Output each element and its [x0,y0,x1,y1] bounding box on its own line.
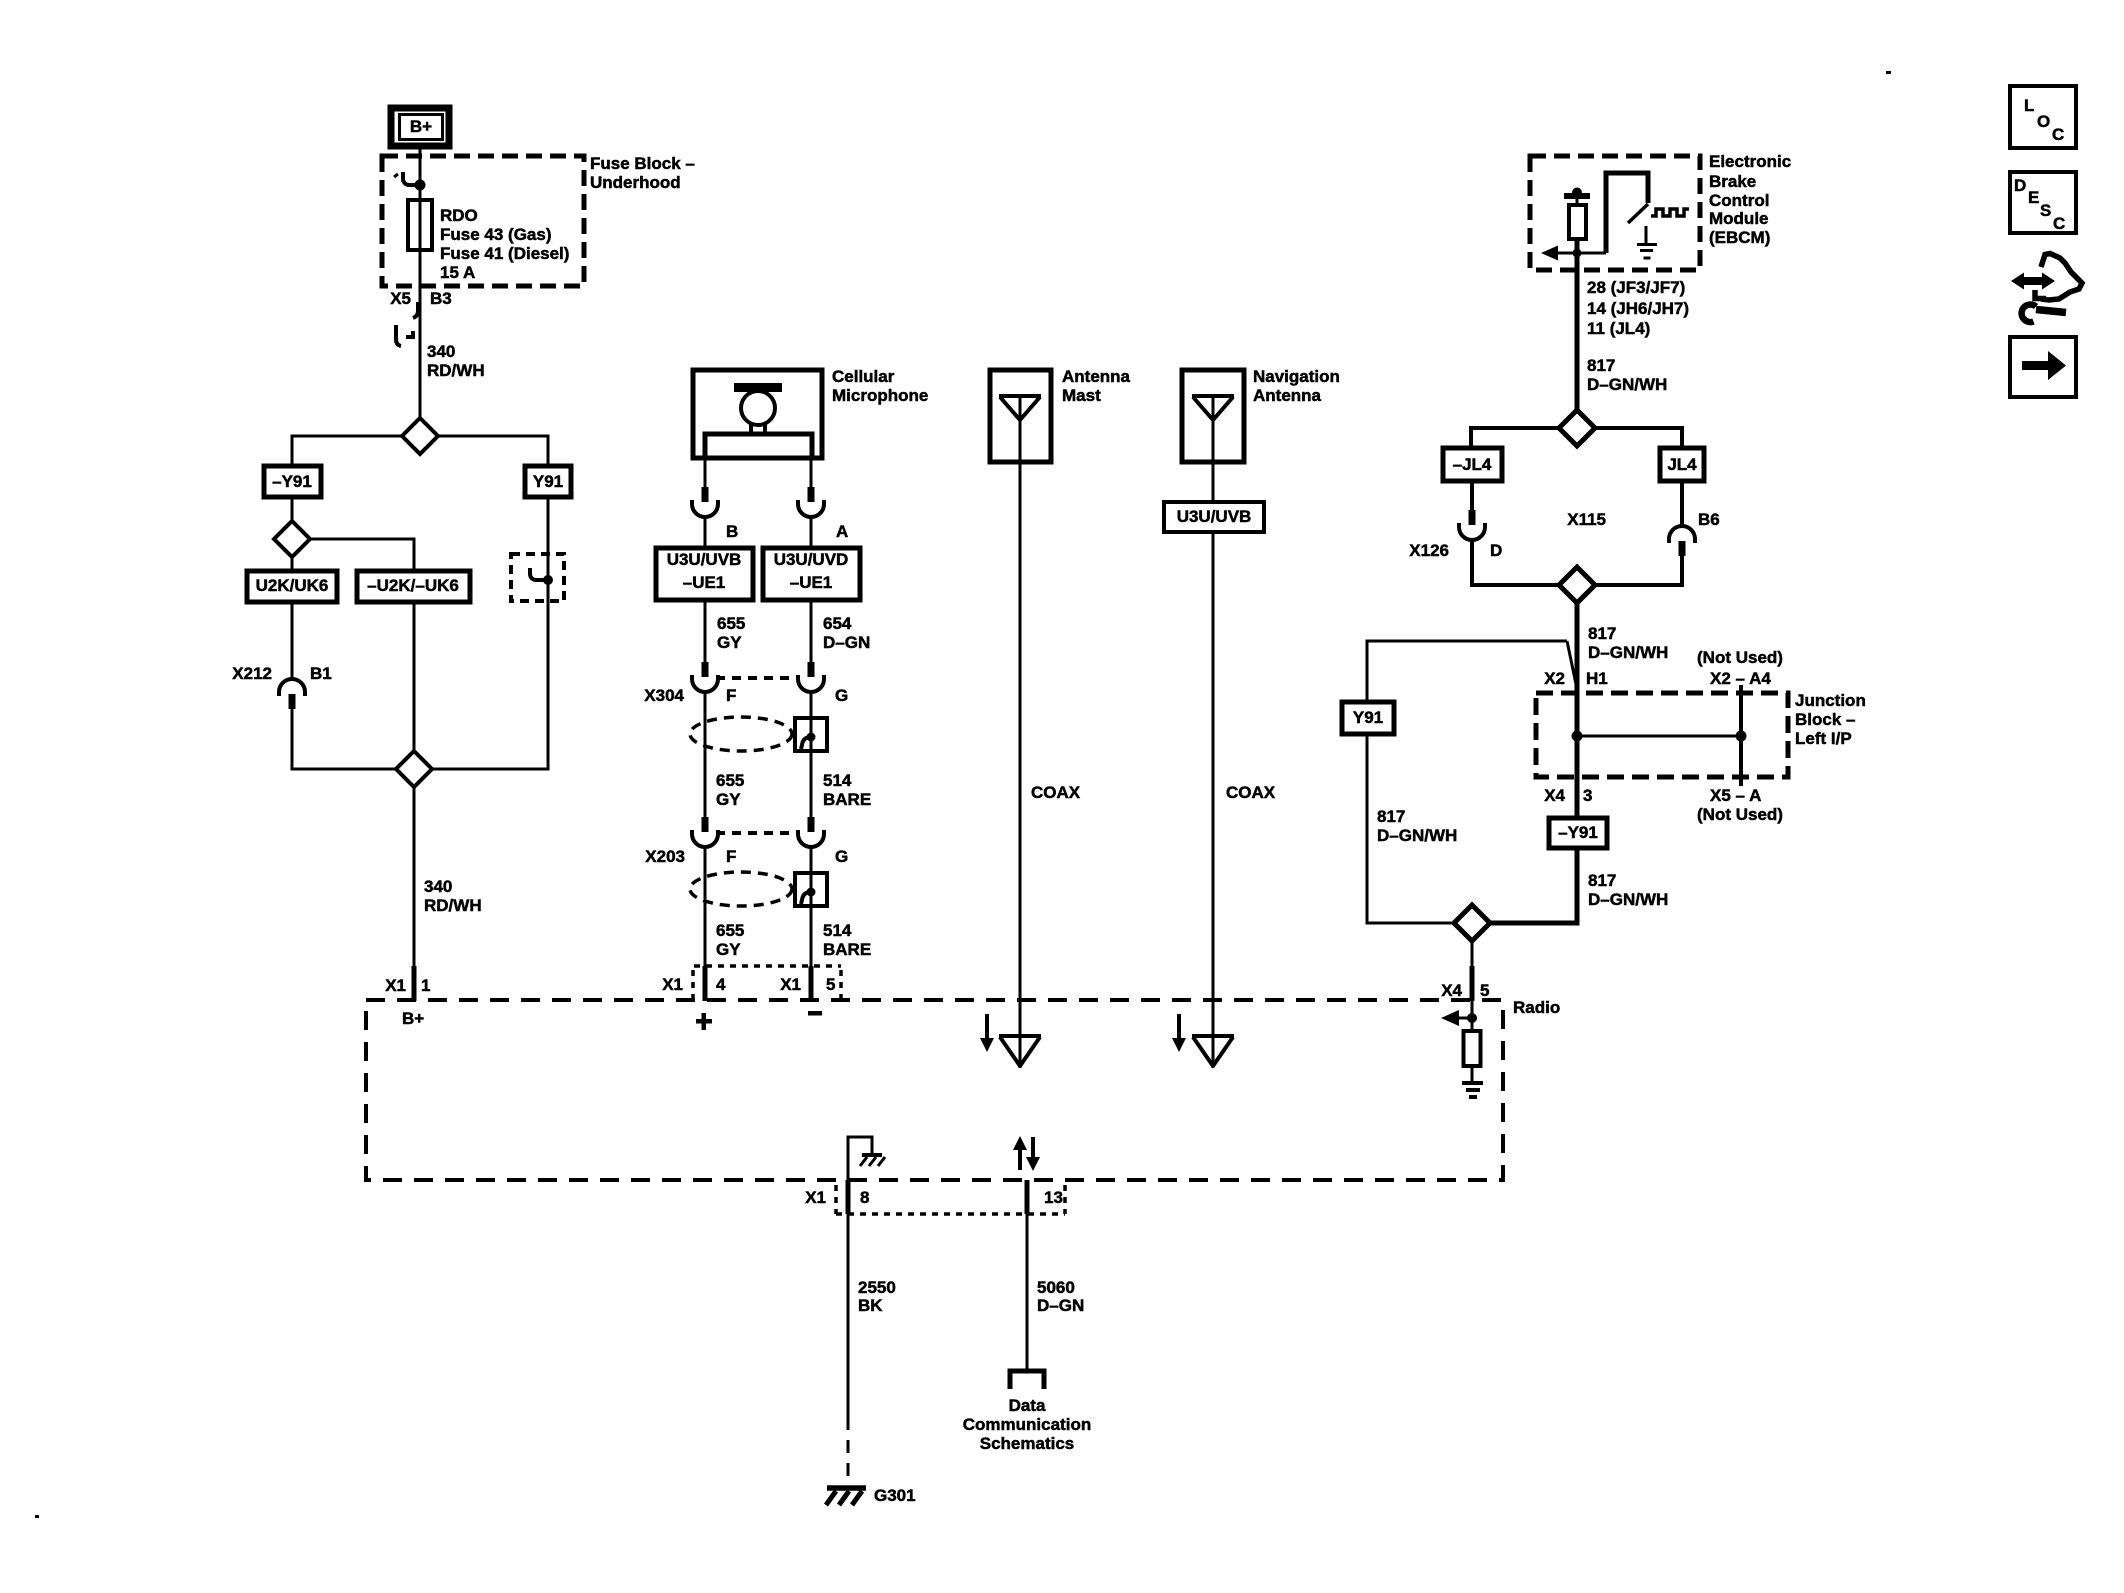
svg-text:(Not Used): (Not Used) [1697,648,1783,667]
EBCM dashed box [1530,156,1700,270]
cellular microphone box [693,370,822,458]
wire X212 down and right to S3 [292,709,398,769]
ANTENNA SECTION [980,367,1340,1068]
option box -Y91 right [1549,818,1607,848]
svg-text:817: 817 [1377,807,1405,826]
radio pin X1 1 [385,966,430,1001]
svg-text:JL4: JL4 [1667,455,1697,474]
svg-text:RD/WH: RD/WH [427,361,485,380]
splice diamond S2 [274,521,310,557]
svg-text:817: 817 [1588,871,1616,890]
wire S2 down [291,555,294,571]
svg-text:Module: Module [1709,209,1769,228]
splice diamond R3 [1454,905,1490,941]
EBCM switch to ground [1606,173,1657,258]
svg-text:11 (JL4): 11 (JL4) [1587,319,1650,338]
shield ellipse 1 [690,717,792,751]
connector X203 F [645,817,736,866]
radio pin X1 5 [780,966,835,1001]
svg-text:RDO: RDO [440,206,478,225]
svg-text:A: A [836,522,848,541]
svg-text:D–GN/WH: D–GN/WH [1588,890,1668,909]
svg-text:X5 – A: X5 – A [1710,786,1761,805]
drain box 1 [795,718,827,751]
svg-text:3: 3 [1583,786,1592,805]
splice diamond R2 [1559,567,1595,603]
svg-text:Brake: Brake [1709,172,1756,191]
svg-text:13: 13 [1044,1188,1063,1207]
svg-text:Left I/P: Left I/P [1795,729,1852,748]
svg-text:U2K/UK6: U2K/UK6 [256,576,329,595]
radio internal ground branch [848,1137,885,1180]
svg-text:Underhood: Underhood [590,173,681,192]
mic wires down [704,458,707,489]
svg-text:X4: X4 [1441,981,1462,1000]
svg-text:B3: B3 [430,289,452,308]
svg-text:Y91: Y91 [533,472,563,491]
antenna mast symbol [999,396,1041,462]
wire fuse to diamond [419,250,422,418]
svg-text:655: 655 [716,921,744,940]
svg-text:14 (JH6/JH7): 14 (JH6/JH7) [1587,299,1689,318]
pin X2 H1 [1544,669,1608,688]
svg-text:655: 655 [717,614,745,633]
option box Y91 right [1342,702,1394,734]
wire to JL4 [1593,428,1682,448]
svg-text:B1: B1 [310,664,332,683]
wire 654 D-GN [810,600,813,664]
wire EBCM down [1575,253,1580,412]
svg-text:U3U/UVD: U3U/UVD [774,550,849,569]
svg-text:U3U/UVB: U3U/UVB [1177,507,1252,526]
wire to -JL4 [1471,428,1561,448]
svg-text:15 A: 15 A [440,263,475,282]
connector X304 F [644,662,736,705]
option box -Y91 [264,466,321,497]
wire 655 GY upper [704,600,707,664]
svg-text:H1: H1 [1586,669,1608,688]
svg-text:Schematics: Schematics [980,1434,1075,1453]
dashed link X203 [716,831,798,835]
svg-text:Data: Data [1009,1396,1046,1415]
Y91 branch thin loop [1367,641,1577,923]
dotted connector strip X1 4/5 [693,966,841,999]
radio pin X1 4 [662,966,726,1001]
svg-text:G: G [835,847,848,866]
arrow icon [2010,337,2076,397]
svg-text:Fuse 41 (Diesel): Fuse 41 (Diesel) [440,244,569,263]
svg-text:28 (JF3/JF7): 28 (JF3/JF7) [1587,278,1685,297]
svg-text:X2: X2 [1544,669,1565,688]
radio antenna terminal mast [999,1000,1041,1068]
option box U3U/UVB nav [1164,502,1264,532]
svg-text:Antenna: Antenna [1062,367,1131,386]
svg-text:D–GN: D–GN [823,633,870,652]
navigation antenna box [1182,370,1244,462]
EBCM driver coil [1564,188,1590,254]
scan speck top right [1886,71,1891,74]
svg-text:BARE: BARE [823,790,871,809]
svg-text:RD/WH: RD/WH [424,896,482,915]
svg-text:Fuse 43 (Gas): Fuse 43 (Gas) [440,225,552,244]
plus label [696,1013,712,1030]
svg-text:D–GN: D–GN [1037,1296,1084,1315]
svg-text:–UE1: –UE1 [683,573,726,592]
wire 2550 BK [847,1214,850,1417]
svg-text:COAX: COAX [1031,783,1081,802]
scan speck bottom left [35,1515,39,1518]
loc icon [2010,86,2076,148]
wire -U2K down to S3 [413,602,416,751]
rf arrow nav [1172,1014,1186,1052]
pin 13 [1027,1180,1063,1214]
svg-text:Microphone: Microphone [832,386,928,405]
svg-text:D: D [1490,541,1502,560]
option box -JL4 [1443,448,1502,481]
connector X212 B1 [232,664,331,709]
bus hook and junction dot [394,172,426,191]
svg-text:Y91: Y91 [1353,708,1383,727]
splice diamond S3 [396,751,432,787]
svg-text:Antenna: Antenna [1253,386,1322,405]
svg-text:COAX: COAX [1226,783,1276,802]
dashed link X304 [716,676,798,680]
svg-text:GY: GY [716,940,741,959]
svg-text:GY: GY [716,790,741,809]
radio antenna terminal nav [1192,1000,1234,1068]
svg-text:2550: 2550 [858,1278,896,1297]
svg-text:X115: X115 [1567,510,1606,529]
svg-text:B+: B+ [410,117,432,136]
svg-text:–U2K/–UK6: –U2K/–UK6 [367,576,459,595]
svg-text:X304: X304 [644,686,684,705]
svg-text:U3U/UVB: U3U/UVB [667,550,742,569]
wire Y91 down through inline conn to S3 [430,497,548,769]
svg-text:8: 8 [860,1188,869,1207]
svg-text:–Y91: –Y91 [272,472,312,491]
svg-text:Electronic: Electronic [1709,152,1791,171]
dashed ground wire [847,1417,850,1484]
EBCM pwm signal [1651,209,1689,216]
svg-text:O: O [2037,112,2050,131]
wire X4-3 to -Y91 [1575,777,1580,818]
MIC SECTION [644,367,928,1030]
coax wire mast [1019,462,1022,1000]
svg-text:G: G [835,686,848,705]
svg-text:B6: B6 [1698,510,1720,529]
connector X304 G [798,662,848,705]
coax wire nav [1212,532,1215,1000]
power feed B+ box [391,108,449,146]
svg-text:(Not Used): (Not Used) [1697,805,1783,824]
desc icon [2010,172,2076,233]
wires X203 to radio [704,847,707,968]
drain box 2 [795,873,827,906]
svg-text:S: S [2040,201,2051,220]
wire X115 to diamond R2 [1593,556,1682,585]
svg-text:X1: X1 [780,975,801,994]
radio dashed box [366,1000,1503,1180]
junction block internal bus [1572,685,1747,786]
svg-text:X2 – A4: X2 – A4 [1710,669,1771,688]
svg-text:5060: 5060 [1037,1278,1075,1297]
svg-text:F: F [726,847,736,866]
svg-text:–Y91: –Y91 [1558,823,1598,842]
svg-text:BARE: BARE [823,940,871,959]
wire S2 right branch to -U2K box [308,539,414,571]
wire nav to U3U/UVB [1212,462,1215,502]
svg-text:Communication: Communication [963,1415,1091,1434]
svg-text:B+: B+ [402,1009,424,1028]
svg-text:D–GN/WH: D–GN/WH [1587,375,1667,394]
option box Y91 [525,466,571,497]
off page bracket [1010,1371,1044,1389]
svg-text:G301: G301 [874,1486,916,1505]
radio internal data arrows [1013,1136,1040,1171]
svg-text:B: B [726,522,738,541]
svg-text:X4: X4 [1544,786,1565,805]
svg-text:817: 817 [1588,624,1616,643]
svg-text:1: 1 [421,976,430,995]
wire -Y91 to diamond S2 [291,497,294,521]
diagnostic icon [2011,254,2082,323]
option box JL4 [1660,448,1704,481]
navigation antenna symbol [1192,396,1234,462]
wire S3 to radio [413,787,416,968]
wire 5060 D-GN [1026,1214,1029,1370]
connector pin A [798,487,848,548]
dotted connector strip X1 8/13 [836,1185,1065,1214]
svg-text:5: 5 [826,975,835,994]
svg-text:5: 5 [1480,981,1489,1000]
svg-text:340: 340 [427,342,455,361]
BOTTOM SECTION [805,1180,1091,1505]
svg-text:GY: GY [717,633,742,652]
svg-text:E: E [2028,188,2039,207]
wire R2 down to X2 H1 [1575,601,1580,695]
RADIO BOX [366,998,1560,1180]
pin X4 3 [1544,786,1592,805]
svg-text:Navigation: Navigation [1253,367,1340,386]
wire left to -Y91 [292,436,404,466]
svg-text:BK: BK [858,1296,883,1315]
fuse block dashed box [382,156,584,286]
option box U3U/UVD -UE1 [763,548,860,600]
svg-text:L: L [2024,96,2034,115]
microphone symbol [705,383,812,458]
antenna mast box [990,370,1051,462]
svg-text:Radio: Radio [1513,998,1560,1017]
svg-text:Cellular: Cellular [832,367,895,386]
svg-text:–UE1: –UE1 [790,573,833,592]
svg-text:Control: Control [1709,191,1769,210]
svg-text:X1: X1 [662,975,683,994]
rf arrow mast [980,1014,994,1052]
svg-text:C: C [2053,214,2065,233]
svg-text:D: D [2014,176,2026,195]
connector X126 D [1409,481,1502,560]
svg-text:340: 340 [424,877,452,896]
svg-text:X1: X1 [805,1188,826,1207]
svg-text:–JL4: –JL4 [1453,455,1492,474]
wire X126 to diamond R2 [1472,540,1561,585]
EBCM feed arrow [1541,246,1606,261]
splice diamond S1 [402,418,438,454]
option box -U2K/-UK6 [357,571,470,602]
wires X304 to X203 [704,692,707,819]
option box U3U/UVB -UE1 [656,548,753,600]
svg-text:X212: X212 [232,664,272,683]
wire right to Y91 [436,436,548,466]
svg-text:X126: X126 [1409,541,1449,560]
wire -Y91 to diamond R3 [1488,848,1577,923]
svg-text:655: 655 [716,771,744,790]
connector X203 G [798,817,848,866]
junction block dashed box [1536,693,1788,777]
minus label [808,1011,822,1016]
svg-text:X5: X5 [390,289,411,308]
connector pin B [692,487,738,548]
connector X5 B3 [390,289,452,346]
splice diamond R1 [1559,410,1595,446]
svg-text:4: 4 [716,975,726,994]
svg-text:Fuse Block –: Fuse Block – [590,154,695,173]
svg-text:514: 514 [823,921,852,940]
svg-text:Junction: Junction [1795,691,1866,710]
svg-text:654: 654 [823,614,852,633]
svg-text:X1: X1 [385,976,406,995]
fuse F43/F41 [408,200,432,250]
svg-text:Block –: Block – [1795,710,1855,729]
pin X4 5 [1441,981,1489,1000]
wire B+ to fuse [419,148,422,200]
svg-text:D–GN/WH: D–GN/WH [1377,826,1457,845]
svg-text:(EBCM): (EBCM) [1709,228,1770,247]
wire R3 to radio X4 5 [1471,941,1474,968]
pin X1 8 [805,1180,869,1214]
SIDE ICONS [2010,86,2082,397]
wire U2K to X212 [291,602,294,679]
shield ellipse 2 [690,872,792,906]
ground G301 [826,1486,916,1505]
inline connector dashed box on Y91 branch [511,554,564,601]
svg-text:817: 817 [1587,356,1615,375]
RIGHT SECTION EBCM [1342,152,1866,1001]
connector X115 B6 [1567,481,1720,556]
svg-text:514: 514 [823,771,852,790]
svg-text:Mast: Mast [1062,386,1101,405]
svg-text:D–GN/WH: D–GN/WH [1588,643,1668,662]
LEFT SECTION [232,108,695,1028]
svg-text:F: F [726,686,736,705]
option box U2K/UK6 [247,571,337,602]
svg-text:X203: X203 [645,847,685,866]
radio internal rf detect circuit [1441,1001,1483,1097]
svg-text:C: C [2052,125,2064,144]
